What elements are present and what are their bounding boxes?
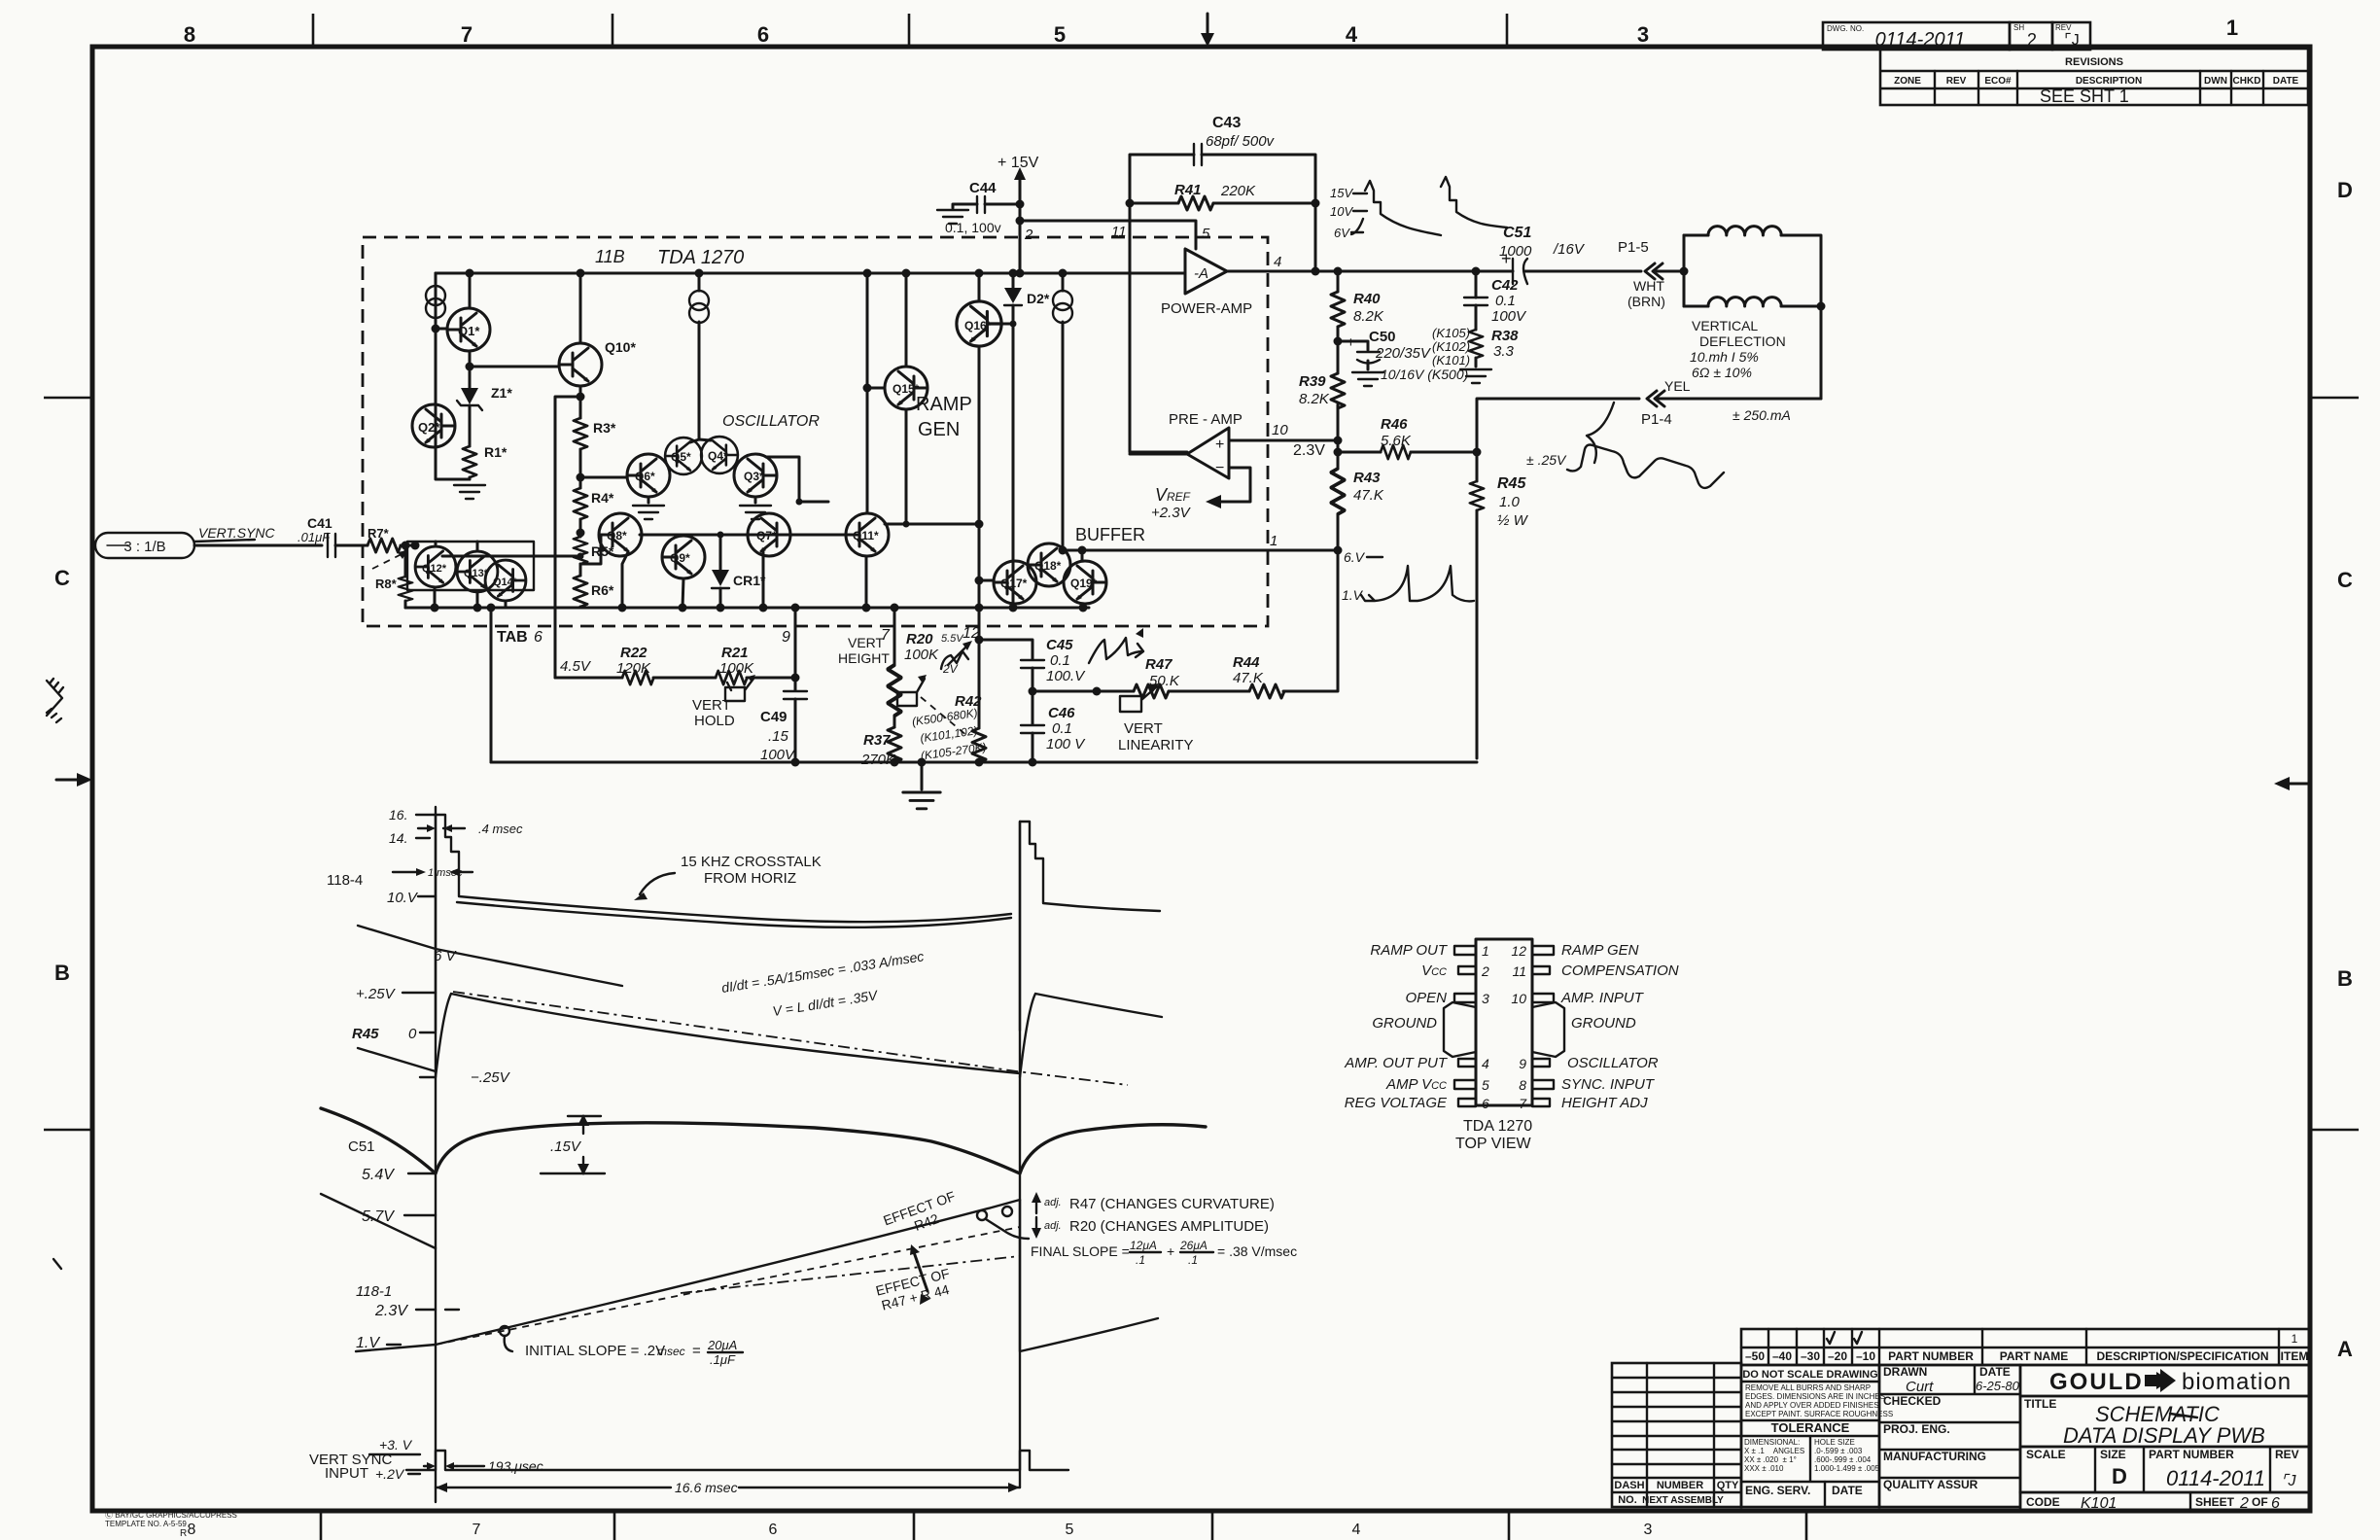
svg-text:R4*: R4* [591, 490, 614, 506]
svg-text:HEIGHT ADJ: HEIGHT ADJ [1561, 1095, 1648, 1111]
resistor R4 [574, 488, 587, 519]
registration squiggle left margin [47, 679, 63, 722]
resistor R3 [579, 397, 582, 418]
svg-text:DO NOT SCALE DRAWING: DO NOT SCALE DRAWING [1742, 1369, 1877, 1381]
wire: Q10 emitter node [579, 386, 582, 397]
svg-text:PROJ. ENG.: PROJ. ENG. [1883, 1422, 1950, 1436]
svg-text:120K: 120K [616, 660, 651, 677]
axis: trace end line [1019, 822, 1021, 1487]
svg-text:GROUND: GROUND [1571, 1015, 1636, 1032]
zener Z1 [469, 367, 472, 446]
resistor R7 [367, 539, 401, 552]
svg-text:1: 1 [1270, 533, 1277, 549]
svg-text:OSCILLATOR: OSCILLATOR [1567, 1055, 1659, 1071]
initial slope annotation [500, 1326, 509, 1336]
svg-text:15 KHZ CROSSTALK: 15 KHZ CROSSTALK [681, 854, 822, 870]
svg-text:DATE: DATE [1832, 1484, 1863, 1497]
svg-text:4: 4 [1346, 22, 1358, 47]
svg-text:R45: R45 [1497, 475, 1526, 492]
svg-text:VERT: VERT [692, 697, 731, 714]
axis: trace start line [435, 807, 437, 1502]
svg-text:–20: –20 [1828, 1349, 1847, 1363]
svg-text:R43: R43 [1353, 470, 1381, 486]
svg-text:193,μsec: 193,μsec [488, 1458, 543, 1474]
svg-text:100V: 100V [1491, 308, 1527, 325]
svg-text:+3. V: +3. V [379, 1437, 413, 1452]
svg-text:−.25V: −.25V [471, 1069, 511, 1086]
svg-text:10: 10 [1511, 991, 1526, 1006]
svg-text:NUMBER: NUMBER [1657, 1480, 1703, 1491]
svg-text:26μA: 26μA [1179, 1239, 1207, 1252]
svg-text:3 : 1/B: 3 : 1/B [123, 539, 165, 555]
svg-text:=: = [692, 1343, 701, 1359]
wire: sync input [194, 544, 322, 547]
svg-text:REVISIONS: REVISIONS [2065, 56, 2123, 68]
svg-text:8: 8 [1519, 1077, 1526, 1093]
potentiometer R47 [1134, 684, 1169, 698]
svg-text:5.6K: 5.6K [1381, 433, 1412, 449]
svg-text:HOLE SIZE: HOLE SIZE [1814, 1438, 1855, 1447]
svg-text:9: 9 [1519, 1056, 1526, 1071]
svg-text:.1μF: .1μF [710, 1352, 736, 1367]
wire: Q11/Q15 to ramp-gen line [885, 523, 979, 526]
svg-text:0.1: 0.1 [1050, 652, 1070, 669]
wire: Q1 emitter node to Q10 base [470, 366, 559, 368]
svg-text:2: 2 [1481, 963, 1489, 979]
svg-text:SH: SH [2013, 23, 2024, 32]
pin 7 [1532, 1099, 1550, 1106]
wire: buffer output rail pin 1 [1063, 549, 1338, 552]
svg-text:Q16*: Q16* [964, 319, 992, 332]
transistor Q9 [662, 536, 705, 578]
annotation: slope equations [720, 948, 929, 1026]
svg-text:220/35V: 220/35V [1375, 345, 1432, 362]
wire: Q10 emitter to 4.5V line [555, 397, 580, 678]
approvals column [1879, 1365, 2020, 1507]
svg-text:100.V: 100.V [1046, 668, 1086, 684]
transistor Q14 [485, 560, 526, 601]
svg-text:PART NAME: PART NAME [2000, 1349, 2068, 1363]
svg-text:Q11*: Q11* [853, 529, 879, 542]
svg-text:Q12*: Q12* [422, 563, 447, 575]
svg-text:.1: .1 [1136, 1253, 1145, 1267]
svg-text:/16V: /16V [1553, 241, 1586, 258]
svg-text:3: 3 [1482, 991, 1489, 1006]
resistor R43 [1331, 469, 1345, 514]
svg-text:TOP VIEW: TOP VIEW [1455, 1136, 1532, 1152]
svg-text:6: 6 [769, 1522, 778, 1538]
svg-text:Q18*: Q18* [1034, 559, 1062, 573]
svg-text:100K: 100K [904, 647, 939, 663]
svg-text:SHEET: SHEET [2195, 1495, 2235, 1509]
svg-text:8.2K: 8.2K [1299, 391, 1330, 407]
svg-text:DASH: DASH [1614, 1480, 1644, 1491]
node: R3/R4 junction [579, 449, 582, 488]
svg-text:-A: -A [1194, 265, 1208, 282]
fold arrow right border [2287, 783, 2310, 786]
wire: R1 bottom to ground [469, 477, 472, 479]
pin 6 [1458, 1099, 1476, 1106]
svg-text:1 msec: 1 msec [428, 867, 463, 879]
svg-text:R1*: R1* [484, 444, 507, 460]
svg-text:15V: 15V [1330, 186, 1353, 200]
svg-text:EDGES. DIMENSIONS ARE IN INCHE: EDGES. DIMENSIONS ARE IN INCHES [1745, 1392, 1885, 1401]
svg-text:VERTICAL: VERTICAL [1692, 318, 1758, 333]
capacitor C45 [979, 640, 1032, 659]
+15V supply arrow [1019, 175, 1022, 204]
svg-text:HEIGHT: HEIGHT [838, 650, 890, 666]
wire: Q3 collector to Q7 region [766, 457, 828, 502]
resistor R37 [893, 717, 896, 727]
svg-text:R46: R46 [1381, 416, 1408, 433]
svg-text:⌜J: ⌜J [2281, 1473, 2297, 1489]
svg-text:0.1: 0.1 [1052, 720, 1072, 737]
capacitor C46 [1029, 687, 1037, 696]
wire: pin 10 input [1229, 439, 1338, 442]
svg-text:HOLD: HOLD [694, 713, 735, 729]
trace: C51 [321, 1108, 1206, 1173]
svg-text:220K: 220K [1220, 183, 1256, 199]
svg-text:ITEM: ITEM [2281, 1349, 2309, 1363]
transistor Q6 [627, 454, 670, 497]
svg-text:2: 2 [2027, 30, 2037, 50]
resistor R45 [1476, 452, 1479, 481]
svg-text:C51: C51 [348, 1138, 375, 1155]
transistor Q10 [559, 343, 602, 386]
wire: Q11 collector [866, 273, 869, 513]
svg-text:QUALITY ASSUR: QUALITY ASSUR [1883, 1478, 1978, 1491]
svg-text:8.2K: 8.2K [1353, 308, 1384, 325]
svg-text:5.4V: 5.4V [362, 1167, 395, 1183]
pin 8 [1532, 1080, 1554, 1089]
svg-text:Q4*: Q4* [708, 449, 728, 463]
svg-text:R41: R41 [1174, 182, 1202, 198]
svg-text:SEE SHT 1: SEE SHT 1 [2040, 87, 2129, 106]
svg-text:R20: R20 [906, 631, 933, 647]
svg-text:3: 3 [1644, 1522, 1653, 1538]
wire: Q15 base [867, 387, 885, 390]
svg-text:REMOVE ALL BURRS AND SHARP: REMOVE ALL BURRS AND SHARP [1745, 1383, 1871, 1392]
effect arrows [914, 1252, 927, 1291]
svg-text:Q10*: Q10* [605, 339, 636, 355]
squiggle leader from YEL wire [1587, 402, 1614, 463]
ground (Q6 emitter) [647, 497, 650, 503]
zone tick marks bottom [321, 1511, 1806, 1540]
svg-text:BUFFER: BUFFER [1075, 525, 1145, 544]
svg-text:OF: OF [2252, 1495, 2268, 1509]
svg-text:Q19*: Q19* [1070, 577, 1098, 590]
wire: Q19 collector to pin1 rail [1081, 550, 1084, 561]
svg-text:LINEARITY: LINEARITY [1118, 737, 1194, 753]
svg-text:0.1: 0.1 [1495, 293, 1516, 309]
svg-text:6Ω ± 10%: 6Ω ± 10% [1692, 365, 1752, 380]
svg-text:9: 9 [782, 629, 790, 646]
svg-text:C49: C49 [760, 709, 787, 725]
IC package outline U1 [1476, 939, 1532, 1105]
svg-text:100K: 100K [719, 660, 754, 677]
svg-text:Q8*: Q8* [607, 529, 627, 542]
svg-text:R39: R39 [1299, 373, 1326, 390]
svg-text:R22: R22 [620, 645, 647, 661]
scale/size/part number row [2020, 1447, 2310, 1492]
svg-text:–30: –30 [1801, 1349, 1820, 1363]
wire: Q16 base to D2 [1001, 323, 1013, 326]
pin 12 [1532, 946, 1554, 955]
svg-text:2: 2 [2239, 1495, 2249, 1512]
svg-text:Q14*: Q14* [493, 577, 518, 588]
resistor R44 [1249, 684, 1284, 698]
svg-text:.4 msec: .4 msec [478, 822, 523, 836]
svg-text:REV: REV [2275, 1448, 2299, 1461]
label pin 7 / VERT HEIGHT pot R20 [893, 608, 896, 665]
wire: sync emitters to rail [435, 587, 506, 608]
svg-text:R47: R47 [1145, 656, 1172, 673]
svg-text:8: 8 [188, 1522, 196, 1538]
svg-text:6: 6 [534, 629, 542, 646]
svg-text:4: 4 [1274, 254, 1281, 270]
dimension 16.6 msec [436, 1487, 1020, 1488]
svg-text:R45: R45 [352, 1026, 379, 1042]
rectangle around sync transistors [407, 542, 534, 590]
connector P1-4 [1647, 391, 1664, 406]
svg-text:FINAL SLOPE =: FINAL SLOPE = [1031, 1243, 1130, 1259]
svg-text:WHT: WHT [1633, 278, 1664, 294]
svg-text:7: 7 [472, 1522, 481, 1538]
label pin 9 [794, 608, 797, 678]
wire: CS2 to oscillator pair [690, 273, 711, 442]
svg-text:5.5V: 5.5V [941, 633, 964, 645]
current source CS3 (buffer bias) [1062, 273, 1065, 550]
svg-text:R21: R21 [721, 645, 749, 661]
svg-text:5: 5 [1202, 226, 1210, 242]
svg-text:INPUT: INPUT [325, 1465, 368, 1482]
svg-text:5: 5 [1066, 1522, 1074, 1538]
svg-text:R37: R37 [863, 732, 891, 749]
tolerance block [1741, 1365, 1879, 1507]
trace: ramp [436, 1200, 1020, 1345]
svg-text:DESCRIPTION: DESCRIPTION [2076, 76, 2142, 87]
svg-text:4.5V: 4.5V [560, 658, 592, 675]
svg-text:C44: C44 [969, 180, 997, 196]
svg-text:Ⓒ BAY/GC GRAPHICS/ACCUPRESS: Ⓒ BAY/GC GRAPHICS/ACCUPRESS [105, 1511, 237, 1520]
svg-text:20μA: 20μA [707, 1338, 737, 1352]
inductor: vertical deflection yoke [1683, 235, 1686, 306]
svg-text:PART NUMBER: PART NUMBER [2149, 1448, 2234, 1461]
svg-text:VERT.SYNC: VERT.SYNC [198, 525, 275, 541]
next assembly grid [1612, 1363, 1741, 1507]
svg-text:B: B [2337, 966, 2353, 991]
svg-text:0: 0 [408, 1026, 417, 1042]
svg-text:⌜J: ⌜J [2064, 32, 2080, 49]
wire: Q6 base from R3/R4 node [580, 476, 627, 479]
annotation arrow near Q12 [372, 552, 405, 569]
svg-text:2: 2 [1024, 227, 1033, 243]
svg-text:R47 (CHANGES CURVATURE): R47 (CHANGES CURVATURE) [1069, 1196, 1275, 1212]
svg-text:OPEN: OPEN [1405, 990, 1447, 1006]
svg-text:R6*: R6* [591, 582, 614, 598]
svg-text:7: 7 [461, 22, 472, 47]
wire: substrate bottom rail [405, 607, 1089, 610]
svg-text:6.V: 6.V [1344, 549, 1366, 565]
svg-text:DRAWN: DRAWN [1883, 1365, 1927, 1379]
diode D2 [1012, 273, 1015, 288]
svg-text:R: R [180, 1528, 187, 1539]
svg-text:4: 4 [1482, 1056, 1489, 1071]
svg-text:6: 6 [2271, 1495, 2280, 1512]
svg-text:47.K: 47.K [1353, 487, 1384, 504]
wire: Q1 emitter to node [469, 351, 472, 367]
svg-text:R7*: R7* [367, 526, 390, 541]
node: sheet reference bubble 3:1/B [95, 533, 194, 558]
svg-text:10/16V (K500): 10/16V (K500) [1381, 367, 1468, 382]
svg-text:Q3*: Q3* [744, 470, 764, 483]
svg-text:14.: 14. [389, 830, 407, 846]
svg-text:CODE: CODE [2026, 1495, 2060, 1509]
transistor Q16 [957, 301, 1001, 346]
svg-text:+: + [1347, 334, 1355, 351]
svg-text:C: C [54, 566, 70, 590]
svg-text:POWER-AMP: POWER-AMP [1161, 300, 1252, 317]
svg-text:–40: –40 [1772, 1349, 1792, 1363]
svg-text:100 V: 100 V [1046, 736, 1086, 752]
svg-text:1: 1 [1482, 943, 1489, 959]
svg-text:COMPENSATION: COMPENSATION [1561, 962, 1679, 979]
svg-text:Curt: Curt [1906, 1379, 1934, 1395]
svg-text:CHKD: CHKD [2233, 76, 2261, 87]
svg-text:+: + [1215, 437, 1224, 453]
svg-text:ENG. SERV.: ENG. SERV. [1745, 1484, 1810, 1497]
svg-text:CR1*: CR1* [733, 573, 766, 588]
svg-text:.15: .15 [768, 728, 789, 745]
svg-text:DATA DISPLAY PWB: DATA DISPLAY PWB [2063, 1423, 2265, 1448]
wire: +15V to pin5 feed and pin2 [1019, 204, 1022, 273]
wire: Q15 emitter to ramp node [905, 409, 908, 524]
svg-text:16.6 msec: 16.6 msec [675, 1480, 738, 1495]
svg-text:biomation: biomation [2182, 1369, 2292, 1395]
pin 11 [1532, 966, 1550, 974]
svg-text:1.000-1.499 ± .005: 1.000-1.499 ± .005 [1814, 1464, 1880, 1473]
transistor Q17 [994, 561, 1036, 604]
svg-text:6: 6 [1482, 1096, 1489, 1111]
wire: Q17 base stub [979, 579, 994, 582]
ground (C44) [953, 204, 977, 208]
pin 4 [1458, 1059, 1476, 1067]
ground tab left [1444, 1002, 1476, 1057]
svg-text:16.: 16. [389, 807, 407, 822]
svg-text:C50: C50 [1369, 329, 1396, 345]
svg-text:C45: C45 [1046, 637, 1073, 653]
ground (main) [921, 762, 924, 789]
svg-text:10.mh I 5%: 10.mh I 5% [1690, 349, 1759, 365]
svg-text:adj.: adj. [1044, 1220, 1062, 1232]
wire: vert linearity node [1032, 690, 1134, 693]
wire: Q8 base from R5 node [580, 535, 601, 564]
svg-text:Z1*: Z1* [491, 385, 512, 401]
svg-text:–10: –10 [1856, 1349, 1875, 1363]
svg-text:1.0: 1.0 [1499, 494, 1521, 510]
svg-text:.600-.999 ± .004: .600-.999 ± .004 [1814, 1455, 1872, 1464]
fold arrow top center [1207, 14, 1209, 39]
svg-text:TITLE: TITLE [2024, 1397, 2056, 1411]
zone tick marks top [313, 14, 1507, 47]
svg-text:(K101): (K101) [1432, 353, 1470, 367]
resistor R41 [1130, 202, 1178, 205]
wire: Q12 collector bus to oscillator [436, 542, 477, 550]
wire: AMP Vcc feed to pin 5 [1020, 221, 1196, 249]
svg-text:TDA 1270: TDA 1270 [657, 247, 744, 268]
transistor Q12 [415, 546, 456, 587]
svg-text:AMP. INPUT: AMP. INPUT [1560, 990, 1645, 1006]
transistor Q4 [701, 437, 738, 473]
svg-text:D: D [2337, 178, 2353, 202]
svg-text:DIMENSIONAL:: DIMENSIONAL: [1744, 1438, 1800, 1447]
connector P1-5 [1645, 263, 1662, 279]
capacitor C44 [977, 196, 985, 213]
wire: ground return rail [491, 761, 1477, 764]
wire: R39 to 2.3V node [1337, 404, 1340, 469]
adj annotations [1035, 1198, 1037, 1213]
capacitor C42 [1475, 271, 1478, 297]
resistor R8 [404, 545, 407, 577]
resistor R38 [1469, 330, 1483, 358]
wire: Q16 emitter chain to ramp node and rail [978, 346, 981, 608]
svg-text:C51: C51 [1503, 225, 1531, 241]
wire: Vref to inverting input [1217, 468, 1250, 502]
svg-text:10V: 10V [1330, 204, 1353, 219]
pin 2 [1458, 966, 1476, 974]
trace: R45 [436, 994, 1020, 1077]
transistor Q5 [665, 437, 702, 474]
current source CS2 [689, 291, 709, 323]
svg-text:AMP. OUT PUT: AMP. OUT PUT [1344, 1055, 1449, 1071]
svg-text:ECO#: ECO# [1984, 76, 2012, 87]
wire: Q16 collector [978, 273, 981, 301]
pin 6 TAB stub [490, 608, 493, 762]
svg-text:2.3V: 2.3V [374, 1303, 408, 1319]
svg-text:118-4: 118-4 [327, 872, 363, 889]
svg-text:SYNC. INPUT: SYNC. INPUT [1561, 1076, 1656, 1093]
svg-text:1.V: 1.V [356, 1335, 380, 1351]
checkmarks [1827, 1332, 1862, 1344]
transistor Q1 [447, 308, 490, 351]
wire: pin1/R43 node down to R44 wire [1283, 550, 1338, 691]
svg-text:10.V: 10.V [387, 890, 419, 906]
svg-text:C46: C46 [1048, 705, 1075, 721]
svg-text:.15V: .15V [550, 1138, 582, 1155]
transistor Q2 [412, 404, 455, 447]
svg-text:C43: C43 [1212, 115, 1241, 131]
svg-text:2.3V: 2.3V [1293, 442, 1325, 459]
svg-text:5: 5 [1482, 1077, 1489, 1093]
svg-text:SCALE: SCALE [2026, 1448, 2066, 1461]
svg-text:C41: C41 [307, 515, 332, 531]
wire: power-amp output rail (pin 4) [1227, 270, 1513, 273]
svg-text:VERT: VERT [1124, 720, 1163, 737]
svg-text:GROUND: GROUND [1372, 1015, 1437, 1032]
dwg-no box [1823, 22, 2090, 51]
svg-text:R38: R38 [1491, 328, 1519, 344]
svg-text:YEL: YEL [1664, 378, 1691, 394]
svg-text:DWG. NO.: DWG. NO. [1827, 24, 1864, 33]
svg-text:X ± .1 ANGLES: X ± .1 ANGLES [1744, 1447, 1804, 1455]
svg-text:12: 12 [1511, 943, 1526, 959]
transistor Q8 [599, 513, 642, 556]
svg-text:DESCRIPTION/SPECIFICATION: DESCRIPTION/SPECIFICATION [2096, 1349, 2268, 1363]
svg-text:1000: 1000 [1499, 243, 1532, 260]
ground (Q3 emitter) [754, 497, 757, 503]
trace: 118-4 [436, 815, 1011, 1031]
svg-text:68pf/ 500v: 68pf/ 500v [1206, 133, 1276, 150]
